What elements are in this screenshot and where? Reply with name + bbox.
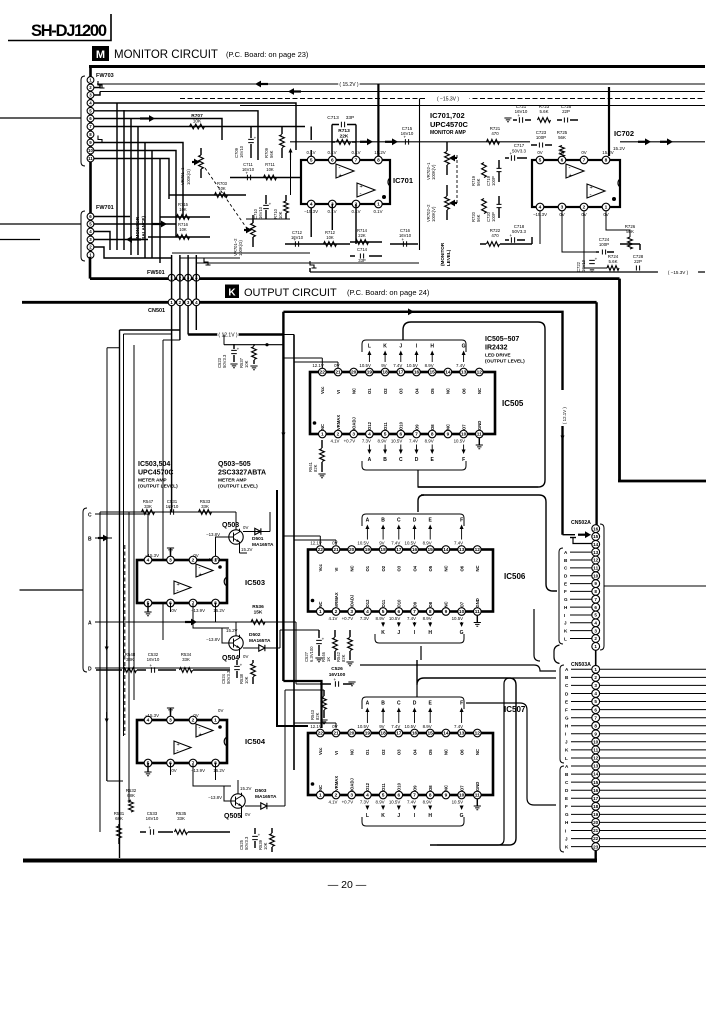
svg-text:5: 5 [594, 613, 597, 618]
svg-text:0.1V: 0.1V [373, 209, 382, 214]
svg-text:4: 4 [594, 691, 597, 696]
svg-text:I: I [565, 732, 566, 737]
wire CN502A pin1 down [595, 650, 597, 666]
svg-text:J: J [397, 630, 400, 636]
wire bottom-right rail [310, 271, 705, 273]
svg-text:10: 10 [593, 740, 599, 745]
svg-text:7.4V: 7.4V [393, 363, 402, 368]
svg-text:8.9V: 8.9V [376, 800, 385, 805]
wire D503 to R543 [285, 690, 324, 806]
svg-text:1: 1 [605, 205, 608, 211]
svg-text:15.2V: 15.2V [213, 608, 225, 613]
wire IC702 output [620, 138, 705, 145]
svg-text:Vcc: Vcc [320, 386, 325, 394]
resistor R712 [310, 230, 350, 246]
potentiometer VR701-2 [233, 215, 255, 256]
svg-text:1: 1 [594, 644, 597, 649]
svg-text:FW703: FW703 [96, 73, 114, 79]
svg-text:+: + [569, 173, 572, 179]
svg-text:R713: R713 [338, 128, 350, 134]
svg-text:(OUTPUT LEVEL): (OUTPUT LEVEL) [485, 359, 525, 365]
svg-text:3: 3 [594, 683, 597, 688]
svg-text:15.2V: 15.2V [240, 786, 252, 791]
svg-text:−13.8V: −13.8V [208, 795, 222, 800]
node CN503A letters [560, 665, 592, 852]
svg-text:O10: O10 [397, 782, 402, 791]
svg-text:O12: O12 [367, 421, 372, 430]
svg-text:O9: O9 [412, 785, 417, 791]
capacitor C718 [505, 224, 527, 243]
svg-text:NC: NC [350, 749, 355, 755]
svg-text:5: 5 [384, 432, 387, 438]
op-amp IC702 [532, 150, 620, 217]
svg-text:470: 470 [491, 131, 499, 136]
svg-text:O12: O12 [365, 599, 370, 608]
svg-text:7.4V: 7.4V [454, 724, 463, 729]
svg-text:22: 22 [593, 836, 599, 841]
capacitor C527 [304, 630, 325, 662]
svg-text:C717: C717 [514, 143, 525, 148]
svg-text:IC504: IC504 [245, 737, 266, 746]
resistor R546 [321, 630, 337, 662]
svg-text:+: + [293, 237, 296, 242]
svg-text:NC: NC [475, 565, 480, 571]
svg-text:100K(V): 100K(V) [431, 164, 436, 180]
svg-text:E: E [565, 796, 568, 801]
capacitor C709 [234, 127, 257, 158]
resistor R535 [166, 811, 230, 834]
svg-text:F: F [460, 701, 463, 707]
svg-text:( 12.1V ): ( 12.1V ) [562, 407, 567, 424]
resistor R711 [262, 162, 311, 180]
svg-text:D502: D502 [249, 632, 261, 638]
svg-text:L: L [368, 344, 371, 350]
wire rail2 [100, 91, 705, 93]
wire hook IC507 [417, 660, 516, 845]
svg-text:UPC4570C: UPC4570C [138, 470, 173, 477]
svg-text:5.6K: 5.6K [608, 259, 617, 264]
svg-text:4: 4 [366, 609, 369, 615]
svg-text:19: 19 [593, 812, 599, 817]
svg-text:10.5V: 10.5V [454, 439, 466, 444]
svg-text:IOADJ: IOADJ [350, 594, 355, 607]
wire A-line junction [290, 622, 296, 630]
svg-text:2: 2 [583, 205, 586, 211]
svg-text:Vcc: Vcc [318, 563, 323, 571]
wire 15.2V rail [97, 83, 705, 85]
svg-text:21: 21 [333, 731, 339, 737]
svg-text:8: 8 [594, 589, 597, 594]
svg-text:F: F [564, 589, 567, 594]
svg-text:LED DRIVE: LED DRIVE [485, 353, 511, 359]
label IC503,504 block [138, 461, 178, 490]
svg-text:7.4V: 7.4V [407, 800, 416, 805]
wire A line to R536 to right [265, 621, 296, 623]
resistor R713 [332, 128, 356, 144]
svg-text:I: I [565, 828, 566, 833]
svg-text:A: A [88, 621, 92, 627]
svg-text:B: B [381, 701, 385, 707]
capacitor C712 [285, 230, 310, 247]
svg-text:11: 11 [88, 156, 93, 161]
svg-text:7.4V: 7.4V [454, 541, 463, 546]
header M MONITOR CIRCUIT [92, 46, 309, 61]
label IC701 [393, 176, 413, 185]
svg-text:4: 4 [539, 205, 542, 211]
svg-text:6: 6 [399, 432, 402, 438]
wire dashed VR701 link [205, 168, 248, 230]
wire bottom bus (thick) [23, 859, 597, 863]
svg-text:10: 10 [593, 573, 599, 578]
svg-text:D: D [413, 701, 417, 707]
svg-text:0.1V: 0.1V [351, 150, 360, 155]
svg-text:19: 19 [365, 731, 371, 737]
wire arrow near FW701 pin5 [152, 221, 167, 228]
svg-text:12: 12 [593, 558, 599, 563]
wire hook IC505 [403, 322, 545, 487]
resistor R547 [100, 499, 236, 514]
svg-text:14: 14 [445, 370, 451, 376]
svg-text:O2: O2 [381, 565, 386, 571]
svg-text:O9: O9 [414, 424, 419, 430]
wire IC504 outputs [171, 763, 232, 786]
svg-text:3: 3 [350, 609, 353, 615]
resistor R715 [160, 202, 210, 219]
svg-text:NC: NC [446, 424, 451, 430]
wire IC505 Vcc feeds [283, 358, 338, 368]
svg-text:(OUTPUT LEVEL): (OUTPUT LEVEL) [218, 484, 258, 490]
svg-text:0V: 0V [334, 363, 339, 368]
svg-text:0V: 0V [581, 150, 586, 155]
wire C523 R537 feed [224, 335, 283, 345]
svg-text:UPC4570C: UPC4570C [430, 120, 469, 129]
svg-text:100P: 100P [599, 242, 609, 247]
op-amp IC701 [301, 150, 390, 214]
svg-text:10: 10 [459, 609, 465, 615]
svg-text:16: 16 [593, 788, 599, 793]
svg-text:13: 13 [459, 547, 465, 553]
svg-text:(P.C. Board: on page 24): (P.C. Board: on page 24) [347, 288, 430, 297]
svg-text:6: 6 [561, 158, 564, 164]
wire D502 to C527 [280, 630, 319, 648]
svg-text:56K: 56K [476, 214, 481, 222]
svg-text:A: A [366, 518, 370, 524]
page number [328, 879, 367, 891]
resistor R538 [239, 660, 255, 684]
svg-text:NC: NC [444, 601, 449, 607]
svg-text:O3: O3 [397, 749, 402, 755]
svg-text:5: 5 [310, 158, 313, 164]
svg-text:7.3V: 7.3V [360, 800, 369, 805]
svg-text:20: 20 [349, 731, 355, 737]
wire mid bus [277, 490, 308, 726]
svg-text:0V: 0V [537, 150, 542, 155]
svg-text:15: 15 [593, 780, 599, 785]
node 15.2V label [338, 80, 360, 88]
svg-text:22: 22 [320, 370, 326, 376]
svg-text:−15.3V: −15.3V [145, 553, 159, 558]
svg-text:16: 16 [412, 547, 418, 553]
wire C526 to IC506 [296, 630, 320, 684]
svg-text:15.2V: 15.2V [374, 150, 386, 155]
svg-text:1: 1 [214, 718, 217, 724]
svg-text:100P: 100P [491, 212, 496, 222]
label IC503 [245, 578, 265, 587]
wire output box left edge [120, 330, 181, 858]
resistor R536 [251, 604, 265, 624]
svg-text:7: 7 [413, 793, 416, 799]
svg-text:+: + [401, 237, 404, 242]
svg-text:100K(G): 100K(G) [238, 240, 243, 256]
svg-text:O5: O5 [428, 565, 433, 571]
wire arrow near FW703 pin6 [140, 115, 155, 122]
svg-text:50V3.3: 50V3.3 [222, 354, 227, 368]
svg-text:6: 6 [331, 158, 334, 164]
svg-text:10K: 10K [179, 207, 187, 212]
op-amp IC504 [137, 708, 227, 776]
svg-text:21: 21 [335, 370, 341, 376]
wire IC507 top bracket to CN503A section2 [466, 703, 556, 805]
svg-text:G: G [460, 813, 464, 819]
svg-text:2: 2 [335, 609, 338, 615]
node -15.3V label bottom [658, 268, 698, 276]
svg-text:10.5V: 10.5V [391, 439, 403, 444]
wire FW703 pin3 [94, 92, 100, 96]
capacitor C525 [239, 828, 261, 850]
svg-text:8.9V: 8.9V [423, 800, 432, 805]
svg-text:10.5V: 10.5V [389, 616, 401, 621]
capacitor C722 [576, 257, 598, 273]
svg-text:CN503A: CN503A [571, 662, 591, 668]
svg-text:OUTPUT CIRCUIT: OUTPUT CIRCUIT [244, 287, 337, 299]
svg-text:10K: 10K [244, 360, 249, 368]
svg-text:33K: 33K [182, 657, 190, 662]
svg-text:3: 3 [169, 718, 172, 724]
svg-text:22P: 22P [634, 259, 642, 264]
node left letters C B A D [83, 508, 92, 673]
svg-text:E: E [565, 699, 568, 704]
IC U506 LED driver [308, 518, 526, 637]
capacitor C725 [557, 104, 578, 123]
svg-text:+: + [258, 833, 261, 838]
resistor R548 [96, 652, 146, 672]
svg-text:G: G [564, 597, 568, 602]
svg-text:LEVEL): LEVEL) [446, 249, 451, 266]
svg-text:56K: 56K [476, 178, 481, 186]
svg-text:NC: NC [444, 565, 449, 571]
svg-text:50V3.3: 50V3.3 [226, 670, 231, 684]
svg-text:100P: 100P [491, 176, 496, 186]
capacitor C711 [230, 162, 262, 180]
svg-text:CN502A: CN502A [571, 520, 591, 526]
wire CN501 bus (thick) [22, 301, 597, 304]
svg-text:O6: O6 [461, 388, 466, 394]
svg-text:GND: GND [475, 782, 480, 791]
ground pigtail FW703 pin1 [98, 81, 105, 88]
svg-text:4: 4 [147, 718, 150, 724]
svg-text:-: - [177, 749, 179, 755]
svg-text:C526: C526 [331, 666, 343, 672]
svg-text:14: 14 [593, 542, 599, 547]
svg-text:15: 15 [430, 370, 436, 376]
svg-text:NC: NC [475, 749, 480, 755]
svg-text:2: 2 [192, 718, 195, 724]
svg-text:82K: 82K [313, 464, 318, 472]
svg-text:22K: 22K [358, 233, 366, 238]
svg-text:9: 9 [445, 609, 448, 615]
svg-text:R707: R707 [191, 113, 203, 119]
svg-text:−15.3V: −15.3V [145, 713, 159, 718]
svg-text:-: - [590, 193, 592, 199]
resistor R532 [126, 788, 137, 812]
wire vertical mid [419, 99, 421, 251]
svg-text:10.5V: 10.5V [405, 541, 417, 546]
svg-text:O9: O9 [412, 601, 417, 607]
svg-text:4: 4 [366, 793, 369, 799]
wire letter bracket IC505 bottom [362, 461, 466, 470]
svg-text:IC506: IC506 [504, 572, 526, 581]
svg-text:0V: 0V [171, 768, 176, 773]
svg-text:( 15.2V ): ( 15.2V ) [339, 82, 359, 88]
svg-text:K: K [381, 630, 385, 636]
svg-text:68K: 68K [115, 816, 123, 821]
svg-text:2: 2 [337, 432, 340, 438]
svg-text:FW501: FW501 [147, 270, 165, 276]
svg-text:16: 16 [414, 370, 420, 376]
svg-text:11: 11 [593, 748, 598, 753]
wire risers FW501-CN501 [172, 255, 197, 512]
svg-text:A: A [368, 457, 372, 463]
svg-text:4.1V: 4.1V [328, 616, 337, 621]
svg-text:17: 17 [396, 547, 402, 553]
svg-text:8: 8 [605, 158, 608, 164]
resistor R724 [607, 254, 619, 270]
svg-text:9V: 9V [379, 724, 384, 729]
svg-text:15: 15 [428, 547, 434, 553]
svg-text:33K: 33K [144, 504, 152, 509]
svg-text:NC: NC [444, 749, 449, 755]
resistor R722 [480, 228, 532, 246]
svg-text:10K: 10K [326, 235, 334, 240]
svg-text:NC: NC [477, 388, 482, 394]
svg-text:-: - [177, 589, 179, 595]
svg-text:F: F [565, 804, 568, 809]
svg-text:+: + [509, 233, 512, 238]
svg-text:O3: O3 [399, 388, 404, 394]
svg-text:19: 19 [365, 547, 371, 553]
svg-text:3: 3 [594, 628, 597, 633]
svg-text:+: + [149, 663, 152, 668]
svg-text:IC701: IC701 [393, 176, 413, 185]
svg-text:4: 4 [310, 202, 313, 208]
svg-text:8: 8 [431, 432, 434, 438]
svg-text:7: 7 [355, 158, 358, 164]
svg-text:Q503: Q503 [222, 522, 239, 529]
svg-text:33K: 33K [126, 657, 134, 662]
svg-text:3: 3 [561, 205, 564, 211]
svg-text:11: 11 [475, 793, 480, 799]
wire C526 line to CN503A bracket [360, 665, 556, 671]
svg-text:−13.8V: −13.8V [206, 532, 220, 537]
svg-text:B: B [88, 537, 92, 543]
svg-text:G: G [462, 344, 466, 350]
svg-text:IR2432: IR2432 [485, 345, 508, 352]
svg-text:NC: NC [446, 388, 451, 394]
svg-text:E: E [564, 581, 567, 586]
svg-text:VI: VI [334, 568, 339, 572]
svg-text:9: 9 [445, 793, 448, 799]
wire letter bracket IC505 top [362, 340, 466, 352]
svg-text:F: F [565, 707, 568, 712]
svg-text:MONITOR CIRCUIT: MONITOR CIRCUIT [114, 49, 218, 61]
wire letter bracket IC507 top [362, 697, 464, 709]
svg-text:+0.7V: +0.7V [342, 800, 354, 805]
svg-text:−13.8V: −13.8V [206, 557, 220, 562]
svg-text:VI: VI [336, 390, 341, 394]
title SH-DJ1200 [8, 14, 111, 41]
svg-text:10.5V: 10.5V [452, 800, 464, 805]
svg-text:3: 3 [350, 793, 353, 799]
svg-text:-: - [339, 166, 341, 172]
svg-text:+: + [245, 170, 248, 175]
wire IC507 Vcc feeds [294, 723, 336, 728]
svg-text:16V10: 16V10 [242, 167, 255, 172]
svg-text:6: 6 [397, 609, 400, 615]
svg-text:15.2V: 15.2V [241, 547, 253, 552]
wire left risers [107, 334, 180, 803]
svg-text:8.9V: 8.9V [425, 439, 434, 444]
svg-text:+: + [403, 135, 406, 140]
svg-text:IOADJ: IOADJ [350, 778, 355, 791]
svg-text:IC701,702: IC701,702 [430, 111, 465, 120]
svg-text:13: 13 [593, 764, 599, 769]
svg-text:O5: O5 [430, 388, 435, 394]
resistor R714 [350, 228, 382, 244]
capacitor C710 [253, 195, 272, 219]
svg-text:IOADJ: IOADJ [352, 417, 357, 430]
svg-text:+: + [360, 184, 363, 190]
wire output line mid [290, 138, 530, 145]
wire VI bus [283, 335, 294, 771]
wire CN503A lines to edge [600, 669, 707, 846]
wire IC506 Vcc feeds [283, 536, 336, 545]
svg-text:O8: O8 [430, 424, 435, 430]
svg-text:0.1V: 0.1V [327, 150, 336, 155]
svg-text:O3: O3 [397, 565, 402, 571]
svg-text:O8: O8 [428, 601, 433, 607]
svg-text:2SC3327ABTA: 2SC3327ABTA [218, 470, 266, 477]
wire -15.3V dashed rail [180, 98, 705, 100]
svg-text:D501: D501 [252, 536, 264, 542]
svg-text:D503: D503 [255, 788, 267, 794]
svg-text:6.3V100: 6.3V100 [309, 646, 314, 662]
svg-text:+: + [199, 732, 202, 738]
node -15.3V label [426, 95, 469, 103]
svg-text:O4: O4 [412, 749, 417, 755]
svg-text:C: C [397, 701, 401, 707]
svg-text:20: 20 [349, 547, 355, 553]
svg-text:IC505: IC505 [502, 399, 524, 408]
transistor Q505 [208, 780, 252, 820]
svg-text:VRMAX: VRMAX [336, 415, 341, 430]
capacitor C716 [390, 228, 418, 247]
svg-text:33P: 33P [346, 115, 355, 121]
svg-text:21: 21 [593, 828, 599, 833]
svg-text:C: C [88, 513, 92, 519]
svg-text:7: 7 [594, 715, 597, 720]
svg-text:470: 470 [491, 233, 499, 238]
svg-text:33P: 33P [358, 258, 366, 263]
